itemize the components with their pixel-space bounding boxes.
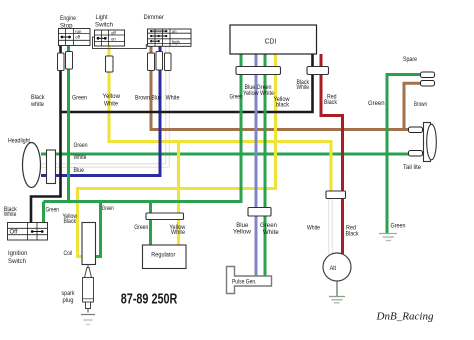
label: Blue bus	[74, 167, 85, 174]
lamp: headlight	[23, 143, 56, 188]
svg-text:Green: Green	[230, 93, 243, 100]
regulator box	[143, 245, 187, 269]
svg-text:Ignition: Ignition	[8, 250, 28, 257]
svg-text:White: White	[171, 229, 185, 236]
label: Red Black (CDI wire)	[324, 93, 338, 105]
label: Coil	[64, 250, 73, 257]
svg-text:White: White	[263, 229, 279, 236]
wire: red/black wire from CDI to alternator	[321, 54, 343, 254]
connector: bullet connector on light switch yellow wire	[106, 56, 114, 72]
label: Spare	[403, 56, 417, 63]
connector: bullet connector on engine stop green wire	[66, 52, 73, 70]
svg-text:Brown: Brown	[414, 101, 427, 108]
wire: black wire from engine stop switch down to ignition switch	[31, 46, 61, 223]
alternator	[323, 253, 351, 281]
connector: bullet connector on dimmer blue wire	[156, 52, 163, 71]
svg-text:Off: Off	[10, 230, 18, 236]
label: Blue Green / Yellow White (CDI connector wires)	[243, 85, 275, 97]
wire: green drop into coil	[96, 202, 101, 257]
svg-text:Green: Green	[72, 95, 87, 102]
connector: spare spade terminal (green)	[421, 72, 435, 78]
wire: green/white wire from CDI to pulse generator	[264, 54, 267, 276]
label: Green White (pulse gen wire)	[260, 222, 279, 236]
svg-text:DnB_Racing: DnB_Racing	[375, 311, 433, 323]
svg-text:Light: Light	[96, 14, 108, 21]
svg-text:White: White	[4, 212, 17, 218]
wire: brown branch up to spare connector	[404, 83, 421, 129]
wire: green ground bus from headlight to tail light	[41, 153, 409, 156]
svg-text:Yellow: Yellow	[103, 93, 121, 100]
svg-text:Black: Black	[64, 218, 77, 225]
label: Engine Stop	[60, 15, 76, 30]
connector: spare spade terminal (brown)	[421, 81, 435, 87]
svg-text:White: White	[307, 225, 320, 232]
connector: bullet connector on dimmer brown wire	[148, 53, 155, 71]
wire: blue/yellow wire from CDI to pulse generator	[255, 54, 258, 276]
label: Yellow White (regulator wire)	[169, 224, 185, 236]
svg-text:Blue: Blue	[152, 95, 162, 102]
svg-text:CDI: CDI	[265, 37, 277, 46]
svg-text:off: off	[111, 31, 117, 36]
wire: thin link from light switch to dimmer switch	[93, 37, 147, 49]
label: Green (coil wire)	[102, 205, 114, 212]
label: Black White (ignition wire)	[4, 207, 18, 218]
spark plug	[83, 265, 94, 313]
svg-text:Dimmer: Dimmer	[144, 14, 165, 21]
label: DnB_Racing signature	[375, 311, 433, 323]
svg-text:Alt: Alt	[330, 265, 337, 272]
label: Brown (spare wire)	[414, 101, 427, 108]
switch: ignition switch contact table	[8, 223, 48, 241]
label: Green (spare wire)	[368, 100, 385, 107]
lamp: tail light	[424, 123, 437, 162]
pulse generator	[227, 267, 272, 294]
label: Headlight	[8, 137, 30, 144]
label: Yellow White (light switch wire)	[103, 93, 121, 107]
svg-text:Engine: Engine	[60, 15, 76, 22]
ignition coil	[82, 223, 96, 265]
label: Red Black (alternator wire)	[346, 225, 360, 238]
svg-text:Switch: Switch	[8, 258, 26, 265]
svg-text:87-89 250R: 87-89 250R	[121, 291, 178, 307]
svg-text:black: black	[276, 102, 290, 109]
ground: spark plug ground	[81, 315, 95, 325]
svg-text:high: high	[172, 40, 181, 45]
wire: green branch to spare connector and frame ground	[387, 75, 421, 234]
connector: regulator connector	[146, 213, 184, 220]
svg-text:Pulse Gen.: Pulse Gen.	[232, 279, 257, 286]
svg-text:Black: Black	[346, 231, 360, 238]
svg-text:on: on	[111, 36, 116, 41]
label: Dimmer	[144, 14, 165, 21]
svg-text:run: run	[75, 29, 82, 34]
label: Yellow Black (coil wire)	[63, 213, 78, 225]
svg-text:Brown: Brown	[135, 95, 150, 102]
label: Green (engine stop wire)	[72, 95, 87, 102]
label: Light Switch	[95, 14, 113, 29]
label: Yellow black (CDI coil wire)	[274, 96, 290, 109]
label: Tail lite	[403, 164, 421, 171]
label: White bus	[74, 154, 87, 161]
switch: light switch contact table	[95, 30, 125, 46]
label: title 87-89 250R	[121, 291, 178, 307]
ground: green wire frame ground	[379, 234, 397, 241]
svg-text:Green: Green	[134, 224, 148, 231]
svg-text:on: on	[172, 29, 177, 34]
label: Black White (CDI connector)	[297, 80, 310, 91]
svg-text:Tail lite: Tail lite	[403, 164, 421, 171]
svg-text:Yellow White: Yellow White	[243, 91, 275, 97]
svg-text:Green: Green	[260, 222, 277, 229]
label: Ignition Switch	[8, 250, 28, 265]
wire: green horizontal run to CDI	[44, 54, 242, 202]
connector: bullet connector on dimmer white wire	[165, 53, 172, 71]
svg-text:Green: Green	[46, 207, 60, 214]
label: Green bus	[74, 142, 88, 149]
wire: black/white bus from CDI to engine stop	[61, 54, 313, 112]
connector: tail light spade terminal (brown)	[409, 127, 423, 133]
wire: white wire from alternator connector to alternator	[328, 198, 332, 255]
wire: green drop into ignition switch	[42, 202, 45, 223]
svg-text:White: White	[74, 154, 87, 161]
label: Brown Blue White (dimmer wires)	[135, 95, 180, 102]
connector: pulse generator connector	[248, 208, 271, 217]
label: Blue Yellow (pulse gen wire)	[233, 222, 251, 236]
svg-text:off: off	[75, 34, 81, 39]
wire: brown lighting wire from dimmer switch to tail light	[151, 46, 409, 129]
wire: yellow branch to regulator	[177, 142, 180, 246]
switch: dimmer switch contact table	[148, 29, 192, 46]
svg-text:White: White	[104, 100, 118, 107]
switch: engine stop switch contact table	[59, 29, 91, 46]
svg-text:Coil: Coil	[64, 250, 73, 257]
svg-text:Green: Green	[368, 100, 385, 107]
label: Green (CDI green wire)	[230, 93, 243, 100]
svg-text:Green: Green	[391, 223, 406, 230]
svg-text:Regulator: Regulator	[151, 252, 176, 259]
label: spark plug	[62, 290, 76, 304]
connector: tail light spade terminal (green)	[409, 151, 423, 157]
svg-text:Headlight: Headlight	[8, 137, 30, 144]
connector: 2-pin CDI connector (black/red)	[307, 67, 329, 75]
svg-text:Black: Black	[31, 94, 45, 101]
label: Green (ground wire)	[391, 223, 406, 230]
svg-text:plug: plug	[63, 297, 74, 304]
svg-text:Yellow: Yellow	[233, 228, 251, 235]
label: Green (regulator wire)	[134, 224, 148, 231]
connector: bullet connector on engine stop black wire	[58, 53, 65, 71]
svg-text:White: White	[297, 85, 310, 91]
label: Black white (engine stop wire)	[30, 94, 45, 108]
wire: white/gray hi-beam wire from dimmer to headlight (white bus)	[41, 46, 168, 165]
svg-text:Black: Black	[324, 99, 338, 106]
svg-text:White: White	[166, 95, 180, 102]
svg-text:Stop: Stop	[60, 23, 73, 30]
connector: 4-pin CDI connector	[236, 67, 281, 75]
wire: yellow lighting feed from light switch to alternator connector	[109, 46, 331, 192]
label: White (alternator wire)	[307, 225, 320, 232]
wire: green kill wire from engine stop switch	[67, 46, 70, 202]
svg-text:Green: Green	[74, 142, 88, 149]
connector: alternator connector	[326, 191, 346, 199]
ground: alternator ground	[329, 281, 345, 303]
wire: yellow/black ignition wire from CDI to coil	[78, 54, 276, 257]
svg-text:Green: Green	[102, 205, 114, 212]
svg-text:white: white	[30, 101, 44, 108]
wire: blue lo-beam wire from dimmer to headlight	[41, 46, 160, 175]
label: Green (ignition wire)	[46, 207, 60, 214]
CDI unit box	[230, 25, 317, 54]
svg-text:Switch: Switch	[95, 22, 113, 29]
svg-text:Blue: Blue	[74, 167, 85, 174]
svg-text:Spare: Spare	[403, 56, 417, 63]
wire: green drop into regulator	[149, 202, 152, 246]
